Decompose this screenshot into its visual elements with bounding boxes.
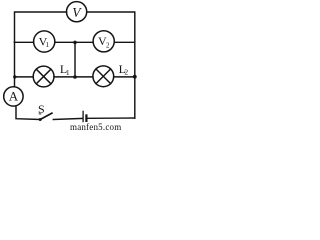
switch pivot node bbox=[39, 118, 42, 121]
wire row2 middle bbox=[55, 41, 93, 43]
wire switch to battery bbox=[53, 118, 82, 119]
switch S blade bbox=[40, 113, 52, 119]
wire row2 right bbox=[114, 41, 135, 43]
battery cell negative plate bbox=[85, 114, 87, 122]
wire row3 left bbox=[15, 76, 34, 78]
battery cell positive plate bbox=[82, 111, 84, 123]
ammeter A bbox=[4, 87, 23, 106]
svg-text:2: 2 bbox=[124, 68, 128, 77]
junction node row2-middle bbox=[73, 41, 77, 45]
wire row2 left bbox=[15, 41, 34, 43]
wire row3 right bbox=[114, 76, 135, 78]
lamp L2 bbox=[93, 66, 114, 87]
svg-text:1: 1 bbox=[66, 68, 70, 77]
wire left rail bbox=[14, 42, 16, 87]
junction node row3-middle bbox=[73, 75, 77, 79]
wire battery to right corner bbox=[87, 117, 135, 119]
junction node row3-left bbox=[13, 75, 16, 78]
svg-text:manfen5.com: manfen5.com bbox=[70, 122, 121, 131]
wire row3 middle bbox=[54, 76, 93, 78]
wire middle vertical branch bbox=[74, 42, 76, 77]
voltmeter U-V bbox=[67, 2, 87, 22]
svg-text:A: A bbox=[9, 89, 19, 104]
junction node row3-right bbox=[133, 75, 137, 79]
voltmeter V2 bbox=[93, 31, 114, 52]
svg-text:2: 2 bbox=[106, 41, 110, 49]
wire top-left corner segment bbox=[15, 12, 67, 42]
lamp L1 bbox=[33, 66, 54, 87]
wire top-right corner segment bbox=[87, 12, 135, 42]
wire right rail bbox=[134, 42, 136, 118]
svg-text:1: 1 bbox=[45, 41, 49, 49]
switch S underline tick bbox=[39, 113, 42, 115]
wire below ammeter to switch bbox=[16, 106, 40, 120]
voltmeter V1 bbox=[34, 31, 55, 52]
